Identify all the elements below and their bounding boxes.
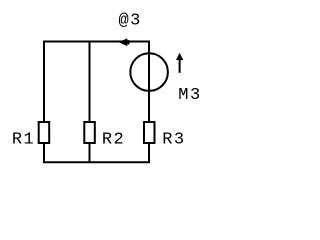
current source M3 circle bbox=[130, 53, 168, 91]
svg-text:R3: R3 bbox=[162, 131, 185, 150]
svg-text:R2: R2 bbox=[102, 131, 125, 150]
resistor R1 body bbox=[39, 122, 50, 143]
resistor R2 body bbox=[84, 122, 95, 143]
svg-text:R1: R1 bbox=[12, 131, 35, 150]
current probe arrow @3 (pointing left) bbox=[119, 38, 130, 46]
svg-text:M3: M3 bbox=[178, 86, 201, 105]
wire top horizontal (node @3 net) with left and right verticals bbox=[44, 42, 149, 123]
current source M3 direction arrow (up) bbox=[179, 59, 181, 73]
resistor R3 body bbox=[144, 122, 155, 143]
svg-text:@3: @3 bbox=[118, 12, 141, 31]
wire middle vertical (bottom) bbox=[89, 143, 91, 162]
wire middle vertical (top) bbox=[89, 42, 91, 123]
wire bottom horizontal (ground net) with left and right stubs bbox=[44, 143, 149, 162]
